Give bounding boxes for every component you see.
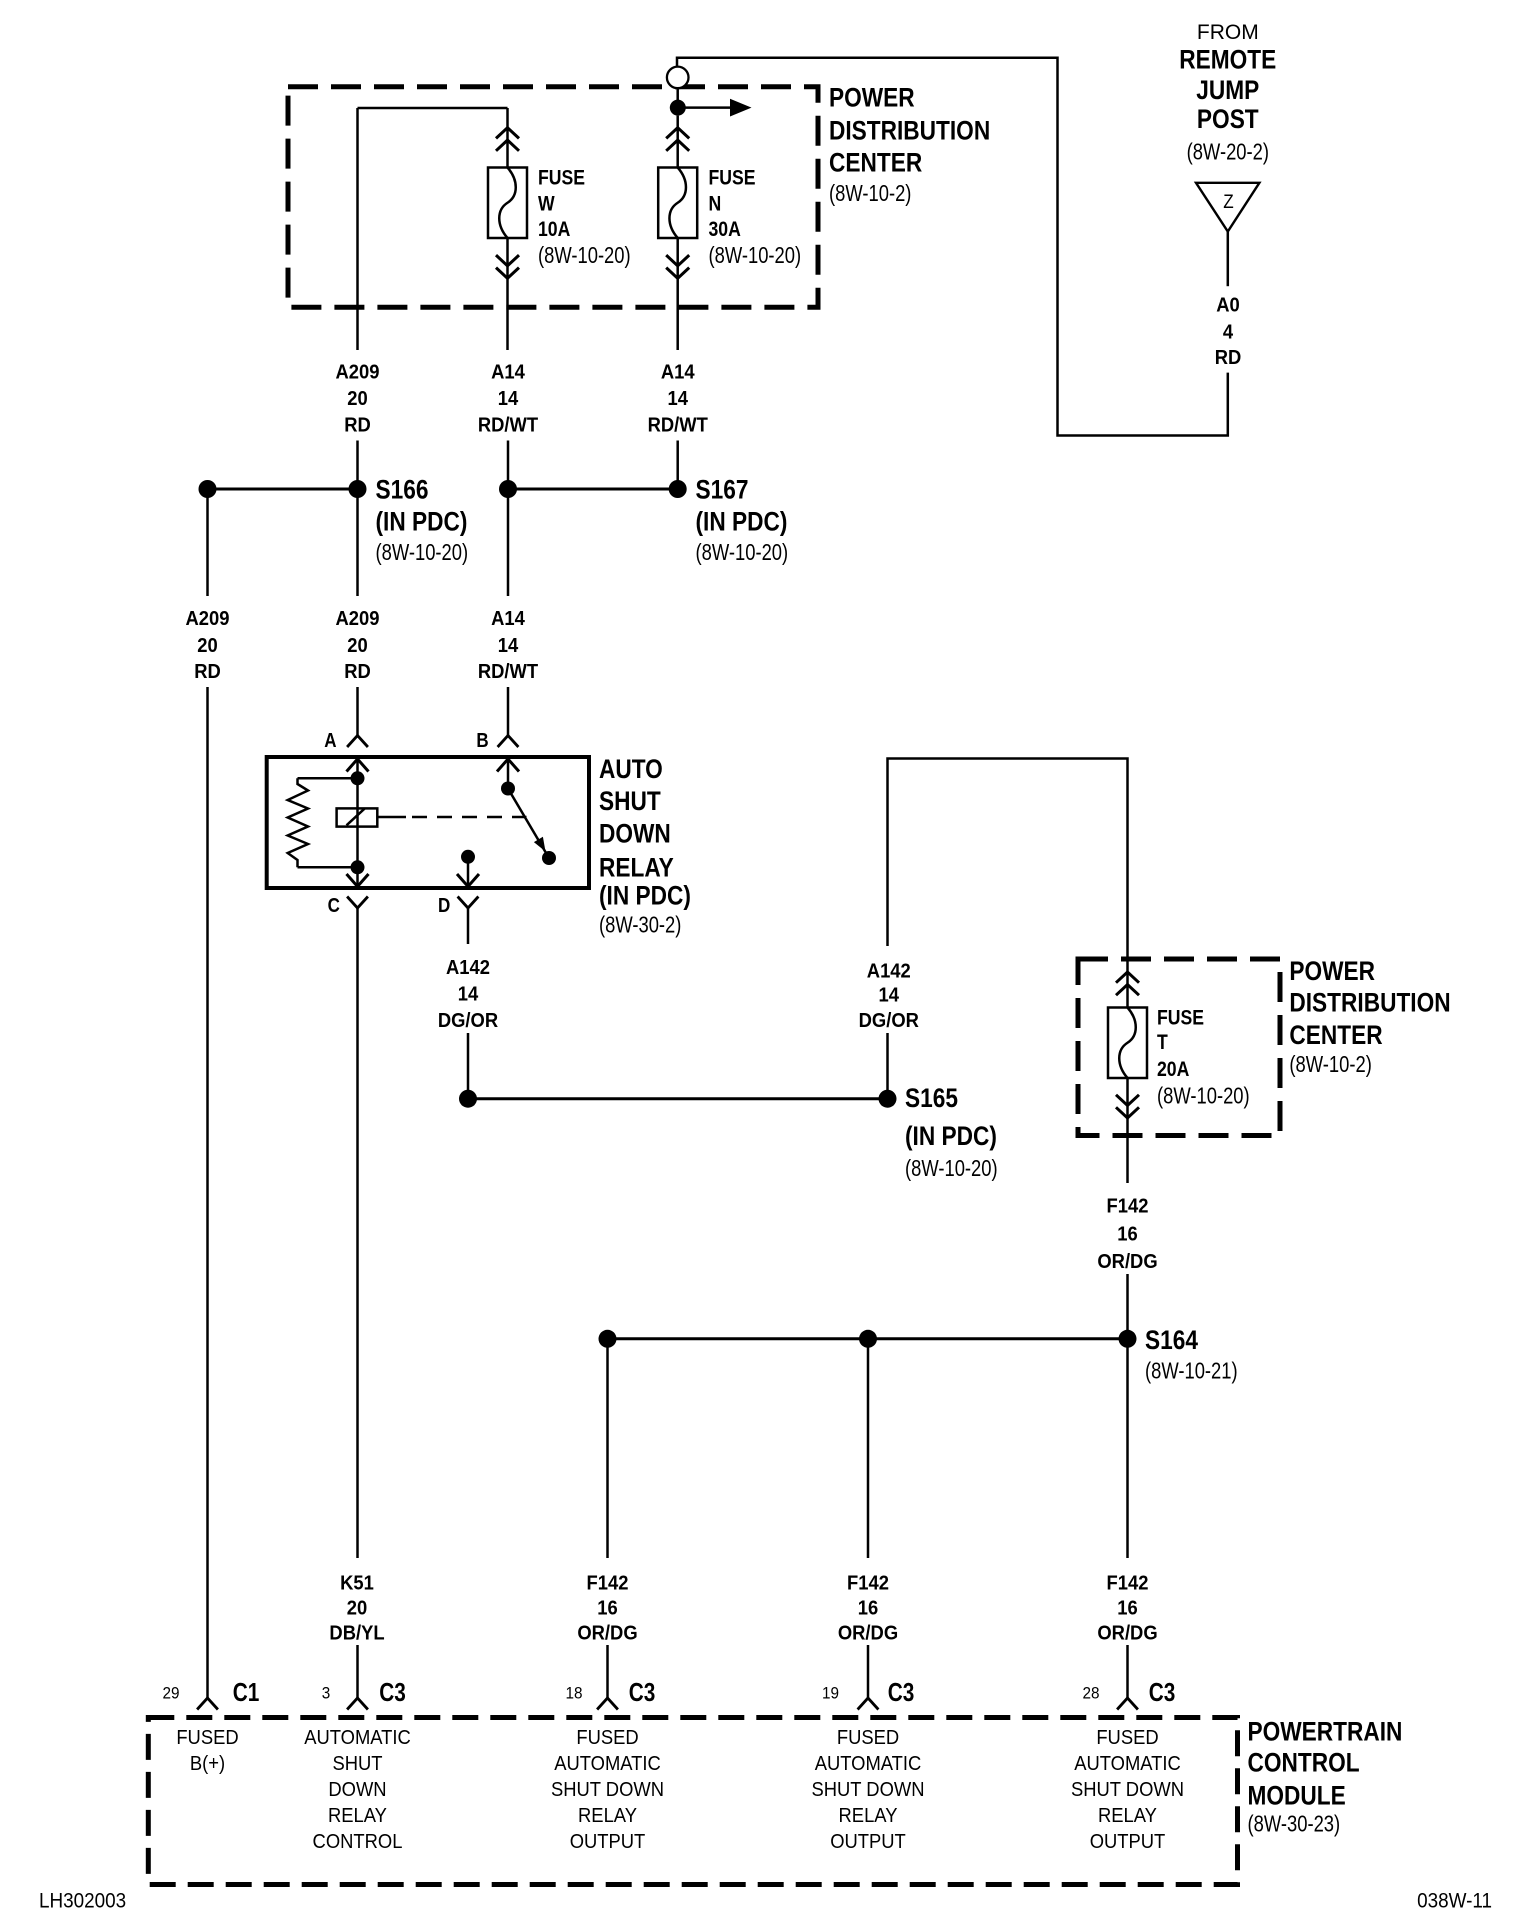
svg-text:16: 16	[597, 1598, 617, 1620]
svg-text:F142: F142	[1107, 1573, 1149, 1595]
svg-text:RELAY: RELAY	[578, 1806, 637, 1828]
svg-text:FUSED: FUSED	[176, 1728, 238, 1750]
svg-text:C3: C3	[888, 1678, 915, 1707]
svg-text:POST: POST	[1197, 104, 1259, 134]
svg-text:30A: 30A	[709, 217, 741, 241]
fuse N 30A	[658, 168, 697, 239]
svg-text:(IN PDC): (IN PDC)	[696, 507, 788, 537]
svg-text:REMOTE: REMOTE	[1179, 45, 1276, 75]
svg-text:FUSE: FUSE	[1157, 1006, 1204, 1030]
svg-text:C1: C1	[233, 1678, 260, 1707]
svg-text:AUTOMATIC: AUTOMATIC	[815, 1754, 922, 1776]
svg-text:OUTPUT: OUTPUT	[1090, 1832, 1166, 1854]
wire segments down to splice row	[356, 441, 359, 490]
svg-text:(8W-30-23): (8W-30-23)	[1248, 1812, 1341, 1837]
wire from triangle Z down to A0 label	[1227, 232, 1230, 287]
wire A209 20 RD to PCM pin 29	[206, 489, 209, 596]
wire fuse W input	[506, 108, 509, 168]
relay switch arm with arrow	[508, 789, 549, 859]
off-page connector triangle Z	[1196, 183, 1259, 232]
relay pin C	[351, 860, 365, 874]
svg-text:RD: RD	[194, 662, 221, 684]
svg-text:19: 19	[822, 1684, 839, 1703]
svg-text:FUSE: FUSE	[709, 166, 756, 190]
svg-text:S165: S165	[905, 1083, 958, 1113]
svg-text:16: 16	[858, 1598, 878, 1620]
svg-text:14: 14	[667, 389, 688, 411]
relay pin B	[498, 736, 519, 748]
splice S165 bus	[468, 1097, 888, 1100]
svg-text:FUSED: FUSED	[837, 1728, 899, 1750]
svg-text:14: 14	[879, 985, 900, 1007]
svg-text:CENTER: CENTER	[829, 148, 922, 178]
wire A142 14 DG/OR relay D to S165	[467, 908, 470, 944]
wire fuse T output	[1126, 1078, 1129, 1183]
relay coil	[356, 778, 359, 867]
svg-text:DISTRIBUTION: DISTRIBUTION	[1289, 988, 1450, 1018]
svg-text:OR/DG: OR/DG	[838, 1623, 898, 1645]
svg-text:POWER: POWER	[829, 83, 915, 113]
svg-text:20: 20	[347, 1598, 367, 1620]
splice S164 bus	[608, 1337, 1128, 1340]
svg-text:A209: A209	[336, 609, 380, 631]
svg-text:C3: C3	[379, 1678, 406, 1707]
svg-text:(8W-10-20): (8W-10-20)	[1157, 1084, 1250, 1109]
svg-text:(8W-10-20): (8W-10-20)	[376, 540, 469, 565]
svg-text:(8W-10-21): (8W-10-21)	[1145, 1359, 1238, 1384]
svg-text:AUTO: AUTO	[599, 754, 663, 784]
svg-text:4: 4	[1223, 322, 1234, 344]
relay coil resistor (suppression)	[298, 777, 358, 780]
svg-text:OUTPUT: OUTPUT	[570, 1832, 646, 1854]
svg-text:RD/WT: RD/WT	[478, 415, 539, 437]
svg-text:A142: A142	[867, 961, 911, 983]
svg-text:29: 29	[162, 1684, 179, 1703]
svg-text:A209: A209	[186, 609, 230, 631]
svg-text:(8W-10-2): (8W-10-2)	[1289, 1052, 1371, 1077]
splice S166 bus	[208, 488, 358, 491]
svg-text:C3: C3	[629, 1678, 656, 1707]
svg-text:FUSED: FUSED	[576, 1728, 638, 1750]
wire F142 16 OR/DG to PCM pin 19	[867, 1339, 870, 1558]
svg-text:S166: S166	[376, 475, 429, 505]
wire K51 20 DB/YL relay C to PCM pin 3	[356, 908, 359, 1558]
fuse T input chevrons	[1126, 967, 1129, 1008]
svg-text:DG/OR: DG/OR	[859, 1011, 919, 1033]
wire fuse N output	[676, 238, 679, 350]
svg-text:OR/DG: OR/DG	[1097, 1623, 1157, 1645]
svg-text:FUSED: FUSED	[1096, 1728, 1158, 1750]
svg-text:S167: S167	[696, 475, 749, 505]
svg-text:A14: A14	[491, 609, 525, 631]
node S165	[879, 1090, 897, 1108]
svg-text:RELAY: RELAY	[1098, 1806, 1157, 1828]
svg-text:SHUT DOWN: SHUT DOWN	[551, 1780, 664, 1802]
svg-text:A142: A142	[446, 957, 490, 979]
wire F142 16 OR/DG to PCM pin 18	[606, 1339, 609, 1558]
svg-text:AUTOMATIC: AUTOMATIC	[1074, 1754, 1181, 1776]
wire F142 16 OR/DG to PCM pin 28	[1126, 1339, 1129, 1558]
svg-text:AUTOMATIC: AUTOMATIC	[554, 1754, 661, 1776]
svg-text:RD/WT: RD/WT	[478, 662, 539, 684]
svg-text:(IN PDC): (IN PDC)	[376, 507, 468, 537]
wire A0 4 RD from remote jump post (top run)	[677, 58, 1228, 436]
svg-text:20A: 20A	[1157, 1058, 1189, 1082]
svg-text:POWER: POWER	[1289, 956, 1375, 986]
svg-text:CONTROL: CONTROL	[1248, 1748, 1360, 1778]
svg-text:POWERTRAIN: POWERTRAIN	[1248, 1717, 1403, 1747]
svg-text:CENTER: CENTER	[1289, 1020, 1382, 1050]
PCM pin 28 C3	[1117, 1698, 1138, 1710]
svg-text:RD: RD	[344, 662, 371, 684]
junction node with continuation arrow	[670, 100, 686, 116]
power distribution center box (dashed)	[288, 87, 818, 307]
svg-text:C: C	[328, 894, 340, 917]
svg-text:F142: F142	[587, 1573, 629, 1595]
svg-text:OUTPUT: OUTPUT	[830, 1832, 906, 1854]
PCM pin 19 C3	[858, 1698, 879, 1710]
wire A209 riser inside PDC	[356, 108, 359, 350]
svg-text:C3: C3	[1149, 1678, 1176, 1707]
svg-text:18: 18	[565, 1684, 582, 1703]
svg-text:14: 14	[498, 389, 519, 411]
svg-text:CONTROL: CONTROL	[313, 1832, 403, 1854]
node S167	[499, 480, 517, 498]
power distribution center box 2 (dashed)	[1078, 959, 1280, 1136]
svg-text:20: 20	[197, 636, 217, 658]
svg-text:(8W-10-2): (8W-10-2)	[829, 181, 911, 206]
svg-text:(8W-20-2): (8W-20-2)	[1187, 139, 1269, 164]
svg-text:14: 14	[458, 984, 479, 1006]
splice S167 bus	[508, 488, 678, 491]
svg-text:B(+): B(+)	[190, 1754, 225, 1776]
wire fuse N input	[676, 116, 679, 168]
svg-text:K51: K51	[340, 1573, 374, 1595]
svg-text:16: 16	[1117, 1224, 1137, 1246]
svg-text:F142: F142	[847, 1573, 889, 1595]
svg-text:3: 3	[322, 1684, 331, 1703]
wire A142 14 DG/OR riser from S165 to fuse T	[886, 1033, 889, 1099]
svg-text:B: B	[476, 729, 488, 752]
svg-text:(IN PDC): (IN PDC)	[599, 880, 691, 910]
wire jog from A209 riser to fuse W input	[358, 107, 508, 110]
fuse W 10A	[488, 168, 527, 239]
svg-text:T: T	[1157, 1031, 1168, 1055]
svg-text:A14: A14	[661, 362, 695, 384]
svg-text:D: D	[438, 894, 450, 917]
svg-text:JUMP: JUMP	[1196, 75, 1259, 105]
node S164	[1119, 1330, 1137, 1348]
svg-text:(8W-30-2): (8W-30-2)	[599, 913, 681, 938]
svg-text:038W-11: 038W-11	[1417, 1890, 1492, 1913]
relay pin A	[347, 736, 368, 748]
svg-text:DOWN: DOWN	[599, 819, 671, 849]
PCM pin 3 C3	[347, 1698, 368, 1710]
svg-text:RD/WT: RD/WT	[648, 415, 709, 437]
svg-text:LH302003: LH302003	[39, 1890, 126, 1913]
node S166	[199, 480, 217, 498]
svg-text:W: W	[538, 192, 555, 216]
terminal circle at PDC entry	[667, 67, 689, 89]
wire fuse W output	[506, 238, 509, 350]
svg-text:FUSE: FUSE	[538, 166, 585, 190]
svg-text:FROM: FROM	[1197, 21, 1259, 44]
svg-text:S164: S164	[1145, 1325, 1198, 1355]
svg-text:A14: A14	[491, 362, 525, 384]
svg-text:RELAY: RELAY	[328, 1806, 387, 1828]
svg-text:SHUT: SHUT	[332, 1754, 382, 1776]
svg-text:A0: A0	[1216, 295, 1240, 317]
svg-text:SHUT DOWN: SHUT DOWN	[811, 1780, 924, 1802]
svg-text:MODULE: MODULE	[1248, 1781, 1346, 1811]
svg-text:RD: RD	[1215, 347, 1242, 369]
svg-text:(8W-10-20): (8W-10-20)	[538, 243, 631, 268]
wire from circle to junction	[676, 88, 679, 107]
svg-text:AUTOMATIC: AUTOMATIC	[304, 1728, 411, 1750]
svg-text:A: A	[324, 729, 336, 752]
svg-text:16: 16	[1117, 1598, 1137, 1620]
powertrain control module box (dashed)	[148, 1718, 1237, 1885]
wire A14 14 RD/WT to relay pin B	[507, 489, 510, 596]
svg-text:RD: RD	[344, 415, 371, 437]
svg-text:A209: A209	[336, 362, 380, 384]
fuse T 20A	[1108, 1008, 1147, 1079]
svg-text:20: 20	[347, 636, 367, 658]
PCM pin 29 C1	[197, 1698, 218, 1710]
svg-text:14: 14	[498, 636, 519, 658]
svg-text:DG/OR: DG/OR	[438, 1011, 498, 1033]
svg-text:(8W-10-20): (8W-10-20)	[709, 243, 802, 268]
svg-text:OR/DG: OR/DG	[1097, 1252, 1157, 1274]
svg-text:(8W-10-20): (8W-10-20)	[696, 540, 789, 565]
svg-text:DOWN: DOWN	[328, 1780, 386, 1802]
svg-text:20: 20	[347, 389, 367, 411]
relay armature dashed link	[378, 816, 406, 819]
svg-text:DB/YL: DB/YL	[329, 1623, 384, 1645]
svg-text:28: 28	[1082, 1684, 1099, 1703]
relay pin D junction	[461, 850, 475, 864]
wire A209 20 RD to relay pin A	[356, 489, 359, 596]
svg-text:10A: 10A	[538, 217, 570, 241]
svg-text:RELAY: RELAY	[599, 853, 674, 883]
svg-text:SHUT DOWN: SHUT DOWN	[1071, 1780, 1184, 1802]
svg-text:F142: F142	[1107, 1196, 1149, 1218]
svg-text:DISTRIBUTION: DISTRIBUTION	[829, 116, 990, 146]
svg-text:OR/DG: OR/DG	[577, 1623, 637, 1645]
svg-text:(IN PDC): (IN PDC)	[905, 1121, 997, 1151]
PCM pin 18 C3	[597, 1698, 618, 1710]
svg-text:(8W-10-20): (8W-10-20)	[905, 1156, 998, 1181]
svg-text:RELAY: RELAY	[839, 1806, 898, 1828]
relay pin C fork below box	[347, 897, 368, 909]
svg-text:Z: Z	[1223, 191, 1233, 212]
relay K1 box	[267, 757, 589, 888]
relay pin D fork below box	[458, 897, 479, 909]
svg-text:SHUT: SHUT	[599, 786, 661, 816]
svg-text:N: N	[709, 192, 722, 216]
